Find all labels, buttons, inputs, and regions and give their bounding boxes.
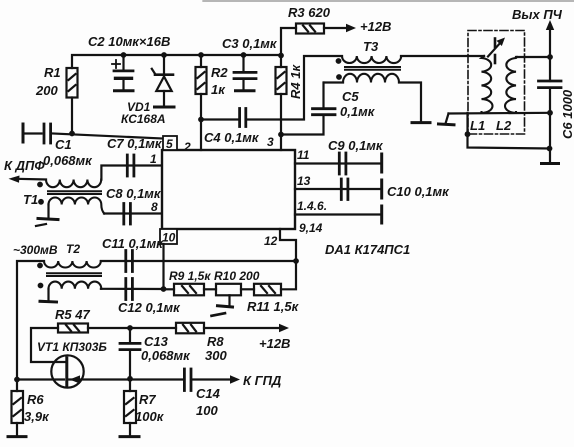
svg-text:Т2: Т2 bbox=[66, 242, 80, 256]
shield box L1/L2 (dash-dot) bbox=[468, 31, 525, 135]
label Vykh PCh bbox=[512, 7, 563, 22]
node: R2/C4/pin2 junction bbox=[198, 117, 204, 123]
svg-text:R1: R1 bbox=[44, 65, 61, 80]
capacitor C14 bbox=[184, 369, 191, 391]
label C11 0,1mk bbox=[102, 236, 164, 251]
wire: C1 to pin 5 bbox=[53, 134, 164, 139]
svg-text:10: 10 bbox=[162, 231, 176, 245]
resistor R11 bbox=[254, 284, 281, 296]
capacitor C12 bbox=[126, 279, 133, 300]
capacitor C3 bbox=[234, 55, 256, 91]
svg-text:~300мВ: ~300мВ bbox=[13, 243, 58, 257]
ground: L1 bottom bbox=[439, 114, 455, 125]
wire: pin 11 line bbox=[295, 162, 380, 164]
svg-text:С9 0,1мк: С9 0,1мк bbox=[328, 138, 384, 153]
svg-text:12: 12 bbox=[264, 234, 278, 248]
svg-text:С3 0,1мк: С3 0,1мк bbox=[222, 36, 278, 51]
svg-text:С12 0,1мк: С12 0,1мк bbox=[118, 300, 181, 315]
label C3 0,1mk bbox=[222, 36, 278, 51]
pin 2 label bbox=[183, 140, 191, 154]
wire: pin 3 vertical bbox=[280, 94, 282, 150]
node: rail/C2 junction bbox=[121, 52, 127, 58]
label R7 100k bbox=[135, 392, 165, 424]
label C2 10mk x 16V bbox=[88, 34, 170, 49]
label C12 0,1mk bbox=[118, 300, 181, 315]
label R1 200 bbox=[35, 65, 61, 98]
inductor L2 bbox=[505, 57, 517, 113]
wire: pins 1,4,6 line bbox=[295, 213, 380, 215]
resistor R8 bbox=[176, 323, 204, 334]
capacitor C9 bbox=[339, 153, 346, 174]
node: shield box corner junction bbox=[465, 131, 471, 137]
node: C12/R9/pin10 junction bbox=[161, 286, 167, 292]
svg-text:Т3: Т3 bbox=[363, 39, 379, 54]
node: rail/R2 junction bbox=[198, 52, 204, 58]
svg-text:9,14: 9,14 bbox=[299, 221, 323, 235]
svg-text:С6 1000: С6 1000 bbox=[560, 89, 574, 139]
label C14 100 bbox=[196, 386, 221, 418]
inductor L1 bbox=[482, 56, 493, 113]
wire: R9 to R10 bbox=[204, 288, 216, 290]
node: rail/R4/R3 junction bbox=[278, 53, 284, 59]
wire: R2 to pin 2 / C4 node bbox=[200, 94, 202, 150]
svg-text:Т1: Т1 bbox=[23, 192, 38, 207]
label T2 bbox=[66, 242, 80, 256]
label C13 0,068mk bbox=[141, 334, 191, 363]
label VT1 KP303B bbox=[37, 340, 107, 354]
label C7 0,1mk bbox=[107, 136, 163, 151]
svg-text:К ГПД: К ГПД bbox=[243, 373, 282, 388]
label C8 0,1mk bbox=[106, 186, 162, 201]
svg-text:200: 200 bbox=[35, 83, 58, 98]
svg-text:С7 0,1мк: С7 0,1мк bbox=[107, 136, 163, 151]
wire: R1 bottom to C1 node bbox=[71, 98, 73, 134]
svg-text:1: 1 bbox=[150, 152, 157, 166]
wire: pin 12 drop bbox=[280, 229, 296, 261]
output line Vykh PCh bbox=[546, 20, 554, 163]
svg-text:5: 5 bbox=[166, 137, 173, 151]
label R9 1,5k bbox=[169, 269, 211, 283]
svg-text:С4 0,1мк: С4 0,1мк bbox=[204, 130, 260, 145]
wire: R3 branch up from rail bbox=[281, 28, 296, 55]
node: rail/VD1 junction bbox=[161, 52, 167, 58]
label R5 47 bbox=[55, 307, 90, 322]
svg-text:R10 200: R10 200 bbox=[214, 269, 260, 283]
label T3 bbox=[363, 39, 379, 54]
pin 10 box bbox=[160, 229, 177, 245]
svg-text:100: 100 bbox=[196, 403, 218, 418]
label R2 1k bbox=[211, 65, 228, 97]
arrow +12V top bbox=[346, 24, 356, 32]
wire: node to R7 bbox=[129, 380, 131, 392]
op-amp U1: IC DA1 K174PS1 box bbox=[162, 150, 295, 229]
node: rail/C3 junction bbox=[241, 52, 247, 58]
wire: T1 bottom winding to pin 8 line bbox=[104, 212, 162, 214]
capacitor C10 bbox=[341, 179, 348, 200]
wire: input left rail bbox=[17, 261, 44, 391]
wire: T2 top to C11 line bbox=[101, 260, 296, 262]
svg-text:С10 0,1мк: С10 0,1мк bbox=[387, 184, 450, 199]
pin 5 box bbox=[163, 136, 177, 151]
svg-text:R7: R7 bbox=[139, 392, 156, 407]
svg-text:100к: 100к bbox=[135, 409, 165, 424]
wire: R5 right to C13 node bbox=[88, 327, 176, 329]
label C5 0,1mk bbox=[340, 89, 376, 119]
pin 11 label bbox=[297, 148, 310, 162]
terminal bar: T3 secondary bbox=[412, 121, 430, 124]
wire: terminal to C1 bbox=[23, 132, 42, 134]
transistor Q1 VT1 bbox=[17, 355, 130, 387]
label ~300mV input bbox=[13, 243, 58, 257]
wire: C4 line right to pin 3 vertical bbox=[246, 118, 281, 120]
svg-text:R9 1,5к: R9 1,5к bbox=[169, 269, 211, 283]
svg-text:11: 11 bbox=[297, 148, 310, 162]
svg-text:+12В: +12В bbox=[360, 19, 391, 34]
resistor R4 bbox=[276, 67, 287, 94]
wire: pin 13 line bbox=[295, 188, 380, 190]
terminal bar: pins 1,4,6 line bbox=[380, 206, 383, 223]
tuning arrow across L1 L2 bbox=[488, 38, 505, 57]
svg-text:R6: R6 bbox=[27, 392, 44, 407]
svg-text:С13: С13 bbox=[144, 334, 169, 349]
label C9 0,1mk bbox=[328, 138, 384, 153]
capacitor C2 (electrolytic) bbox=[112, 55, 133, 91]
wire: C14 to K GPD arrow bbox=[192, 378, 233, 380]
label +12V top bbox=[360, 19, 391, 34]
resistor R1 bbox=[67, 68, 78, 98]
wire: bottom line under coils bbox=[449, 112, 551, 115]
svg-text:8: 8 bbox=[151, 200, 158, 214]
core dashes between L1 L2 bbox=[494, 39, 497, 64]
capacitor C11 bbox=[126, 251, 133, 272]
label R10 200 bbox=[214, 269, 260, 283]
label DA1 K174PS1 bbox=[325, 242, 410, 257]
svg-text:3,9к: 3,9к bbox=[24, 409, 50, 424]
terminal bar: pin 13 line bbox=[380, 180, 383, 198]
wire: R3 to +12V arrow bbox=[324, 27, 349, 29]
svg-text:0,1мк: 0,1мк bbox=[340, 104, 376, 119]
resistor R7 bbox=[124, 391, 136, 423]
wire: node to R9 bbox=[164, 288, 175, 290]
label R3 620 bbox=[288, 5, 331, 20]
svg-text:VT1 КП303Б: VT1 КП303Б bbox=[37, 340, 107, 354]
label VD1 KS168A bbox=[121, 100, 166, 126]
svg-text:0,068мк: 0,068мк bbox=[141, 348, 191, 363]
wire: T3 secondary left to C5 bbox=[324, 81, 343, 83]
wire: box corner drop bbox=[468, 113, 550, 149]
wire: T2 bottom to C12 line bbox=[101, 288, 164, 290]
wire: C5 branch bbox=[281, 117, 324, 135]
node: R5/C13/R8 junction bbox=[127, 325, 133, 331]
svg-text:R8: R8 bbox=[207, 334, 224, 349]
resistor R2 bbox=[196, 55, 207, 94]
arrow +12V bottom bbox=[279, 324, 289, 332]
wire: pin 10 drop bbox=[162, 244, 164, 289]
capacitor C4 bbox=[240, 109, 246, 127]
transformer T1 bbox=[37, 180, 104, 214]
capacitor C5 bbox=[313, 83, 336, 115]
node: pin3/C5 junction bbox=[278, 132, 284, 138]
transformer T3 bbox=[336, 56, 402, 83]
wire: T3 secondary right down bbox=[399, 83, 421, 122]
svg-text:L1: L1 bbox=[470, 118, 485, 133]
wire: +12V rail y=55 from R1 top to R4 top bbox=[72, 55, 281, 68]
svg-text:С5: С5 bbox=[342, 89, 359, 104]
svg-text:С11 0,1мк: С11 0,1мк bbox=[102, 236, 164, 251]
capacitor C6 bbox=[539, 81, 562, 88]
label K GPD bbox=[243, 373, 282, 388]
label R4 1k (rotated) bbox=[288, 64, 303, 99]
capacitor C13 bbox=[120, 328, 140, 379]
pin 3 label bbox=[267, 135, 274, 149]
resistor R6 bbox=[12, 391, 24, 423]
label C6 1000 (rotated) bbox=[560, 89, 574, 139]
arrow K DPF (points left) bbox=[9, 176, 20, 183]
label T1 bbox=[23, 192, 38, 207]
wire: T3 primary left leg bbox=[281, 56, 342, 120]
svg-text:3: 3 bbox=[267, 135, 274, 149]
svg-text:R3 620: R3 620 bbox=[288, 5, 331, 20]
ground: R6 bottom bbox=[8, 423, 26, 437]
svg-text:КС168А: КС168А bbox=[121, 112, 166, 126]
label +12V bottom bbox=[259, 336, 290, 351]
terminal bar: pin 11 line bbox=[380, 154, 383, 172]
svg-text:R11 1,5к: R11 1,5к bbox=[247, 299, 300, 314]
ground: T1 bottom bbox=[36, 205, 58, 227]
svg-text:DA1 К174ПС1: DA1 К174ПС1 bbox=[325, 242, 410, 257]
svg-text:Вых ПЧ: Вых ПЧ bbox=[512, 7, 563, 22]
node: C13/R7/C14 junction bbox=[127, 376, 133, 382]
wire: C4 line left bbox=[201, 118, 239, 120]
svg-text:13: 13 bbox=[297, 174, 311, 188]
node: pin12/C11-line/R11 junction bbox=[293, 258, 299, 264]
wire: T3 primary right to L1 bbox=[401, 55, 484, 57]
resistor R5 bbox=[58, 324, 88, 333]
svg-text:300: 300 bbox=[205, 348, 227, 363]
capacitor C8 bbox=[124, 204, 131, 225]
svg-text:С8 0,1мк: С8 0,1мк bbox=[106, 186, 162, 201]
svg-text:R4 1к: R4 1к bbox=[288, 64, 303, 99]
pin 12 label bbox=[264, 234, 278, 248]
terminal bar: C1 input bbox=[22, 124, 25, 142]
ground: R7 bottom bbox=[120, 423, 139, 437]
wire: L2 top to output bbox=[516, 56, 550, 58]
node: rail/VT1 junction bbox=[14, 377, 20, 383]
label R11 1,5k bbox=[247, 299, 300, 314]
svg-text:К ДПФ: К ДПФ bbox=[4, 158, 45, 173]
wire: R5 left to VT1 gate bbox=[31, 328, 65, 362]
wire: R10 to R11 bbox=[241, 288, 254, 290]
ground: R10 tap bbox=[212, 295, 233, 316]
pin 1,4,6 label bbox=[297, 199, 327, 213]
resistor R10 bbox=[216, 284, 241, 296]
ground: output bottom bbox=[542, 162, 559, 165]
svg-text:1.4.6.: 1.4.6. bbox=[297, 199, 327, 213]
pin 13 label bbox=[297, 174, 311, 188]
svg-text:+12В: +12В bbox=[259, 336, 290, 351]
pin 1 label bbox=[150, 152, 157, 166]
capacitor C7 bbox=[127, 155, 134, 176]
ground: T2 bottom bbox=[40, 289, 57, 302]
label L1 L2 bbox=[470, 118, 512, 133]
resistor R9 bbox=[174, 284, 204, 296]
label C1 0,068mk bbox=[43, 137, 93, 168]
node: bottom wire to output bbox=[547, 146, 553, 152]
svg-text:1к: 1к bbox=[211, 82, 226, 97]
zener diode VD1 KS168A bbox=[152, 55, 174, 107]
wire: node to C14 bbox=[130, 378, 183, 380]
wire: K DPF to T1 primary bbox=[17, 178, 46, 181]
resistor R3 bbox=[296, 24, 324, 34]
wire: R8 to +12V arrow bbox=[204, 327, 282, 329]
label C4 0,1mk bbox=[204, 130, 260, 145]
label K DPF input bbox=[4, 158, 45, 173]
svg-text:L2: L2 bbox=[496, 118, 512, 133]
node: L2/output junction bbox=[547, 54, 553, 60]
node: L-bottom/output junction bbox=[547, 110, 553, 116]
svg-text:R5 47: R5 47 bbox=[55, 307, 90, 322]
svg-text:R2: R2 bbox=[211, 65, 228, 80]
svg-text:С14: С14 bbox=[196, 386, 221, 401]
capacitor C1 bbox=[44, 124, 51, 143]
label C10 0,1mk bbox=[387, 184, 450, 199]
label R8 300 bbox=[205, 334, 227, 363]
svg-text:2: 2 bbox=[183, 140, 191, 154]
scan border top bbox=[203, 0, 574, 2]
wire: R11 up to pin12 node bbox=[281, 261, 296, 289]
node: C1/R1 junction bbox=[69, 131, 75, 137]
svg-text:С2 10мк×16В: С2 10мк×16В bbox=[88, 34, 170, 49]
svg-text:0,068мк: 0,068мк bbox=[43, 153, 93, 168]
transformer T2 bbox=[37, 261, 101, 289]
pin 8 label bbox=[151, 200, 158, 214]
wire: T1 secondary top to pin 1 line bbox=[101, 166, 162, 180]
svg-text:С1: С1 bbox=[55, 137, 72, 152]
arrow K GPD bbox=[230, 375, 240, 383]
label R6 3,9k bbox=[24, 392, 50, 424]
pin 9,14 label bbox=[299, 221, 323, 235]
